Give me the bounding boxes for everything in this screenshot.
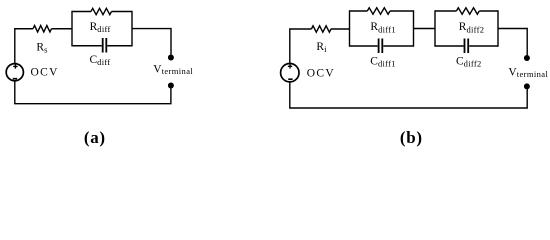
svg-text:Ri: Ri xyxy=(316,41,327,54)
wire: block to upper terminal (a) xyxy=(132,29,171,55)
wire: top branch left segment (a) xyxy=(72,11,91,13)
node: upper terminal dot (b) xyxy=(524,55,530,61)
wire: block2 top branch right segment xyxy=(479,10,498,12)
voltage source OCV (a) xyxy=(6,64,23,81)
wire: Ri to RC block 1 (b) xyxy=(331,28,350,30)
svg-text:Vterminal: Vterminal xyxy=(153,64,193,77)
node: lower terminal dot (a) xyxy=(168,83,174,89)
wire: block2 bottom branch left segment xyxy=(435,45,464,47)
wire: lower terminal down, bottom return wire to source (b) xyxy=(290,82,527,108)
voltage source OCV (b) xyxy=(281,63,299,81)
capacitor Cdiff (a) xyxy=(103,38,107,53)
resistor Rdiff2 xyxy=(456,8,479,14)
svg-text:Cdiff1: Cdiff1 xyxy=(370,56,396,69)
svg-text:Rdiff: Rdiff xyxy=(90,21,111,34)
wire: block1 top branch right segment xyxy=(390,10,414,12)
RC block 1 (b) left edge xyxy=(349,10,351,46)
RC block 2 (b) left edge xyxy=(434,10,436,46)
wire: source top lead up and right to Ri (b) xyxy=(290,29,312,63)
svg-text:Vterminal: Vterminal xyxy=(508,66,548,78)
wire: Rs to RC block (a) xyxy=(52,28,73,30)
wire: source top lead up and right to Rs (a) xyxy=(15,29,33,64)
wire: block1 top branch left segment xyxy=(350,10,368,12)
wire: top branch right segment (a) xyxy=(112,11,133,13)
wire: lower terminal down, bottom return wire to source (a) xyxy=(15,81,171,104)
svg-text:Cdiff: Cdiff xyxy=(90,54,111,67)
wire: bottom branch right segment (a) xyxy=(107,45,132,47)
wire: block1 bottom branch right segment xyxy=(383,45,413,47)
resistor Rs (a series resistor) xyxy=(33,26,51,32)
node: lower terminal dot (b) xyxy=(524,83,530,89)
svg-text:Rdiff2: Rdiff2 xyxy=(459,21,485,34)
capacitor Cdiff2 xyxy=(465,39,469,54)
resistor Ri (b series resistor) xyxy=(311,26,331,32)
svg-text:(b): (b) xyxy=(400,128,423,147)
RC block 2 (b) right edge xyxy=(497,10,499,46)
node: upper terminal dot (a) xyxy=(168,55,174,61)
svg-text:OCV: OCV xyxy=(31,67,59,79)
RC block (a) left edge xyxy=(71,11,73,47)
RC block 1 (b) right edge xyxy=(413,10,415,46)
svg-text:Rdiff1: Rdiff1 xyxy=(370,21,396,34)
wire: block2 bottom branch right segment xyxy=(469,45,498,47)
resistor Rdiff (a) xyxy=(91,8,112,14)
resistor Rdiff1 xyxy=(367,8,390,14)
svg-text:(a): (a) xyxy=(84,128,106,147)
wire: block1 bottom branch left segment xyxy=(350,45,378,47)
svg-text:Cdiff2: Cdiff2 xyxy=(456,56,482,69)
wire: block1 to block2 (b) xyxy=(414,28,436,30)
svg-text:Rs: Rs xyxy=(36,41,47,54)
wire: block2 top branch left segment xyxy=(435,10,456,12)
RC block (a) right edge xyxy=(131,11,133,47)
capacitor Cdiff1 xyxy=(379,39,383,54)
svg-text:OCV: OCV xyxy=(307,68,335,80)
wire: bottom branch left segment (a) xyxy=(72,45,102,47)
wire: block2 to upper terminal (b) xyxy=(498,29,527,56)
